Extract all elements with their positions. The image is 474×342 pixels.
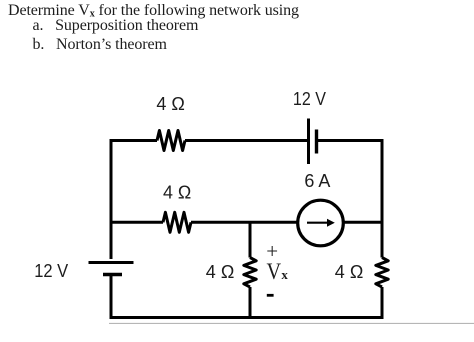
battery 12V left: short plate — [103, 273, 122, 276]
svg-text:4 Ω: 4 Ω — [156, 94, 185, 114]
wire middle rail center segment — [191, 221, 298, 224]
label 12V top — [293, 89, 326, 109]
label 12V left — [34, 261, 68, 281]
resistor R middle 4ohm — [163, 212, 191, 232]
label plus sign — [266, 239, 278, 263]
resistor R top 4ohm — [157, 131, 185, 151]
svg-text:12 V: 12 V — [293, 89, 326, 109]
svg-text:6 A: 6 A — [304, 171, 330, 191]
wire bottom rail — [110, 316, 384, 319]
svg-text:V: V — [267, 259, 282, 284]
wire top rail right segment — [318, 139, 384, 142]
resistor R Vx 4ohm vertical — [244, 258, 256, 288]
label minus sign — [267, 294, 274, 297]
battery 12V top: long plate — [307, 119, 310, 165]
title line 2 — [33, 18, 199, 34]
label 4ohm right — [335, 262, 364, 282]
label 6A — [304, 171, 330, 191]
current source 6A circle — [298, 200, 344, 246]
wire right vertical upper — [381, 139, 384, 258]
label 4ohm Vx branch — [206, 262, 235, 282]
title line 1 — [8, 3, 299, 20]
wire top rail middle segment — [185, 139, 307, 142]
wire middle rail left segment — [111, 221, 163, 224]
svg-text:4 Ω: 4 Ω — [163, 182, 191, 202]
current source arrow — [307, 219, 335, 227]
svg-text:4 Ω: 4 Ω — [206, 262, 235, 282]
label 4ohm middle — [163, 182, 191, 202]
wire middle rail right segment — [344, 221, 383, 224]
wire left vertical lower — [110, 276, 113, 319]
battery 12V left: long plate — [89, 261, 134, 264]
label 4ohm top — [156, 94, 185, 114]
svg-text:4 Ω: 4 Ω — [335, 262, 364, 282]
scan artifact faint line — [109, 322, 474, 324]
wire top rail left segment — [110, 139, 158, 142]
wire right vertical lower — [381, 287, 384, 319]
wire middle branch lower — [249, 287, 252, 319]
resistor R right 4ohm vertical — [376, 258, 388, 288]
battery 12V top: short plate — [315, 130, 318, 154]
wire middle branch upper — [249, 222, 252, 257]
label Vx — [267, 259, 289, 284]
title line 3 — [33, 37, 167, 53]
svg-text:12 V: 12 V — [34, 261, 68, 281]
svg-text:x: x — [281, 267, 288, 282]
wire left vertical upper — [110, 139, 113, 259]
